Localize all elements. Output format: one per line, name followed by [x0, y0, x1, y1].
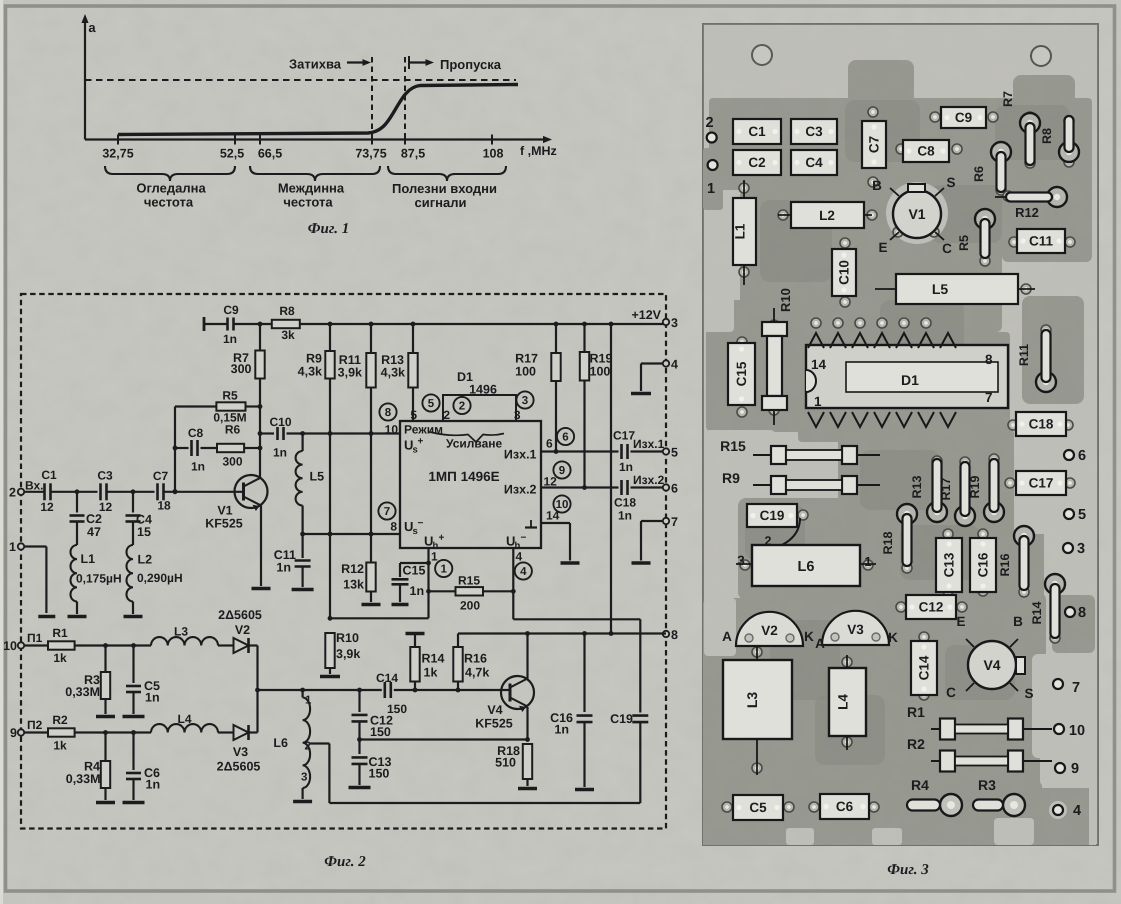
svg-text:7: 7 [671, 515, 678, 529]
svg-text:1n: 1n [191, 460, 205, 474]
pin-number bubble 7 [378, 502, 395, 519]
junction [103, 730, 108, 735]
junction C10 [258, 431, 263, 436]
svg-text:1n: 1n [554, 723, 569, 737]
terminal 6 [663, 484, 669, 490]
svg-text:S: S [1024, 686, 1033, 701]
svg-text:C12: C12 [919, 600, 944, 615]
wire input [24, 491, 45, 493]
copper pour C15-R10 [706, 300, 802, 432]
component C1 [733, 119, 781, 144]
svg-text:150: 150 [369, 767, 390, 781]
junction rail x=556 [554, 322, 559, 327]
svg-text:V3: V3 [233, 745, 248, 759]
junction rail x=611 [609, 322, 614, 327]
resistor R11 [366, 353, 375, 388]
svg-text:C18: C18 [1029, 417, 1054, 432]
svg-text:E: E [878, 240, 887, 255]
wire C10 left [260, 432, 274, 434]
wire C11 bottom [302, 567, 304, 588]
svg-text:8: 8 [390, 520, 397, 534]
wire +12V rail [234, 323, 272, 325]
svg-text:L6: L6 [273, 736, 288, 750]
svg-text:R18: R18 [881, 531, 895, 554]
wire R11-R12 column [370, 388, 372, 563]
junction [357, 688, 362, 693]
svg-text:C3: C3 [97, 469, 113, 483]
svg-text:C7: C7 [867, 136, 882, 153]
terminal 10 (P1) [18, 642, 24, 648]
svg-text:R6: R6 [972, 166, 986, 182]
svg-text:0,33M: 0,33M [66, 772, 101, 786]
svg-text:V1: V1 [217, 504, 232, 518]
copper shading 5 [860, 450, 940, 510]
wire V4 collector [526, 634, 528, 679]
wire C14 to V4 base [394, 689, 510, 691]
junction [300, 532, 305, 537]
IC ground symbol [525, 520, 537, 528]
wire C19 column top [639, 619, 641, 712]
wire R3 bottom [104, 699, 106, 714]
svg-text:R11: R11 [1017, 344, 1031, 366]
svg-text:C16: C16 [976, 552, 991, 577]
copper shading 11 [995, 105, 1070, 160]
wire V1 emitter [260, 506, 262, 587]
component C12 [906, 595, 956, 619]
terminal 5 [663, 448, 669, 454]
copper pour mid band [838, 428, 1014, 532]
svg-text:R5: R5 [222, 389, 238, 403]
diode V2 [736, 612, 803, 646]
svg-text:4,7k: 4,7k [465, 666, 489, 680]
svg-text:R10: R10 [778, 288, 793, 312]
svg-text:150: 150 [370, 725, 391, 739]
svg-text:7: 7 [985, 390, 993, 405]
svg-text:2: 2 [705, 115, 713, 131]
wire R19 bottom [583, 381, 585, 488]
junction [554, 449, 559, 454]
svg-text:1: 1 [9, 540, 16, 554]
wire C2-L1 [76, 522, 78, 546]
component C7 [862, 121, 886, 168]
svg-text:R12: R12 [1015, 205, 1039, 220]
ground terminal4 [631, 392, 651, 396]
wire P2 [24, 731, 48, 733]
svg-text:1k: 1k [53, 651, 67, 665]
junction [131, 489, 136, 494]
svg-text:Фиг. 2: Фиг. 2 [324, 854, 366, 870]
svg-text:1496: 1496 [469, 383, 497, 397]
ground C16 [575, 788, 594, 792]
resistor R8 [272, 320, 300, 328]
svg-text:R17: R17 [515, 352, 538, 366]
svg-text:C10: C10 [269, 415, 291, 429]
svg-text:C: C [946, 685, 956, 700]
wire R10 bottom [329, 668, 331, 674]
wire R11 top [370, 324, 372, 353]
junction [582, 631, 587, 636]
svg-text:C2: C2 [86, 512, 102, 526]
wire to IC pin10 [287, 432, 401, 434]
arrow from pass band [409, 56, 434, 69]
svg-text:4: 4 [671, 358, 678, 372]
svg-text:5: 5 [671, 446, 678, 460]
junction [328, 532, 333, 537]
svg-text:V1: V1 [908, 206, 925, 222]
wire C4-L2 [132, 522, 134, 546]
wire Izh2 row [541, 486, 619, 488]
wire emitter row [360, 738, 528, 740]
capacitor C10 [278, 427, 284, 440]
svg-text:V4: V4 [983, 657, 1000, 673]
diode V3 [822, 611, 889, 645]
svg-text:L2: L2 [819, 208, 835, 223]
svg-text:C10: C10 [837, 260, 852, 285]
wire terminal4 [641, 362, 666, 364]
wire pin14 [541, 522, 570, 524]
solder pads [722, 107, 1075, 812]
wire L6 tap2 drop [328, 744, 330, 804]
wire L2 bottom [132, 602, 134, 615]
svg-text:Изх.2: Изх.2 [504, 483, 537, 497]
svg-text:R19: R19 [968, 475, 982, 498]
svg-text:100: 100 [515, 365, 536, 379]
svg-text:1: 1 [707, 181, 715, 197]
junction [525, 737, 530, 742]
ground C5 [123, 715, 145, 719]
capacitor C16 [577, 716, 593, 723]
ground L2 [124, 615, 143, 619]
capacitor C18 [622, 480, 628, 495]
capacitor C3 [101, 483, 107, 500]
svg-text:R9: R9 [306, 352, 322, 366]
component L3 [723, 646, 792, 775]
pointer squiggle [430, 432, 504, 442]
svg-text:1n: 1n [618, 509, 632, 523]
svg-text:V4: V4 [487, 703, 502, 717]
wire R19 top [583, 324, 585, 352]
svg-text:8: 8 [385, 407, 392, 419]
wire R16 bottom [457, 682, 459, 691]
svg-text:C14: C14 [376, 671, 398, 685]
capacitor C2 [70, 516, 85, 522]
ground pin14 [561, 561, 580, 565]
pad terminal 2 [705, 115, 716, 143]
wire L4 to V3 [218, 731, 234, 733]
ground [320, 675, 340, 679]
wire R9-R10 column [329, 379, 331, 619]
copper pour R1-R2 [900, 695, 1042, 781]
svg-text:2Δ5605: 2Δ5605 [218, 608, 262, 622]
svg-text:2: 2 [443, 408, 450, 422]
component C3 [791, 119, 837, 144]
svg-text:1k: 1k [53, 739, 67, 753]
svg-text:47: 47 [87, 525, 101, 539]
transistor V1 [890, 184, 944, 240]
etched notch bottom 2 [786, 828, 814, 845]
pad terminal 6 [1064, 448, 1086, 464]
svg-text:10: 10 [556, 499, 569, 511]
IC text Uh+ [424, 533, 445, 552]
svg-text:6: 6 [562, 432, 568, 444]
axis tick 235 [234, 135, 236, 145]
svg-text:−: − [521, 533, 527, 544]
terminal 4 [663, 360, 669, 366]
resistor R2 [48, 728, 75, 736]
component L4 [829, 655, 866, 750]
svg-text:9: 9 [10, 726, 17, 740]
graph Y axis with arrow [81, 14, 88, 140]
wire Uh+ bottom link [330, 617, 429, 619]
svg-text:A: A [815, 636, 825, 651]
svg-text:6: 6 [1078, 448, 1086, 464]
inductor L6 [303, 698, 311, 789]
copper pour left column [703, 148, 723, 210]
junction [413, 688, 418, 693]
svg-text:100: 100 [590, 365, 611, 379]
svg-text:7: 7 [1072, 680, 1080, 696]
wire R18 bottom [526, 779, 528, 786]
svg-text:C19: C19 [760, 508, 785, 523]
brace useful input signals [388, 166, 506, 181]
svg-text:S: S [946, 175, 955, 190]
diode V2 [234, 638, 249, 653]
svg-text:1: 1 [431, 550, 438, 564]
svg-text:Изх.1: Изх.1 [633, 437, 665, 451]
copper pour bottom band [703, 758, 1095, 845]
svg-text:C13: C13 [942, 552, 957, 577]
resistor R16 [453, 647, 462, 682]
svg-text:3: 3 [1077, 541, 1085, 557]
wire L5-C11 [302, 506, 304, 559]
copper pour C13-C16 [872, 505, 1044, 602]
junction [131, 730, 136, 735]
ground R3 [96, 715, 115, 719]
junction [173, 446, 178, 451]
ground L1 [68, 615, 87, 619]
trace curve to L6 [772, 518, 800, 549]
junction [103, 643, 108, 648]
wire R15 left [429, 590, 456, 592]
svg-text:1n: 1n [223, 332, 237, 346]
junction [173, 489, 178, 494]
capacitor C13 [352, 757, 368, 764]
pin-number bubble 8 [379, 403, 396, 420]
component R11 [1017, 330, 1056, 392]
svg-text:2Δ5605: 2Δ5605 [217, 760, 261, 774]
component R19 [968, 459, 1004, 522]
svg-text:C8: C8 [188, 426, 204, 440]
pin-number bubble 10 [553, 495, 570, 512]
svg-text:108: 108 [483, 147, 504, 161]
svg-text:E: E [956, 614, 965, 629]
resistor R9 [325, 351, 334, 379]
resistor R15 [456, 587, 484, 595]
svg-text:+: + [439, 533, 445, 544]
junction [173, 489, 178, 494]
capacitor C4 [126, 516, 141, 522]
svg-text:C3: C3 [805, 124, 823, 139]
copper shading 6 [845, 100, 920, 162]
svg-text:R17: R17 [939, 477, 953, 500]
junction rail x=371 [369, 322, 374, 327]
wire R13 to pin5 [412, 388, 414, 422]
svg-text:87,5: 87,5 [401, 147, 425, 161]
wire C15 bottom [399, 584, 401, 602]
svg-text:K: K [888, 630, 898, 645]
svg-text:3: 3 [522, 395, 528, 407]
svg-text:сигнали: сигнали [415, 195, 467, 210]
svg-text:C1: C1 [41, 468, 57, 482]
copper pour V2-L3 [703, 598, 909, 764]
terminal 3 [663, 319, 669, 325]
copper pour top band [709, 98, 1092, 190]
svg-text:4,3k: 4,3k [381, 366, 405, 380]
component L2 [778, 202, 872, 228]
D1 pin chevrons [808, 333, 956, 427]
component R7 [1001, 91, 1040, 165]
svg-text:честота: честота [144, 195, 194, 210]
svg-text:Изх.1: Изх.1 [504, 448, 537, 462]
component R1 [907, 704, 1052, 740]
svg-text:12: 12 [40, 500, 54, 514]
svg-text:+: + [418, 436, 424, 447]
copper mottle texture [703, 24, 1098, 845]
pad terminal 1 [707, 160, 718, 197]
wire R15 right [483, 590, 513, 592]
svg-text:7: 7 [384, 506, 390, 518]
svg-text:2: 2 [9, 486, 16, 500]
ground R4 [96, 801, 115, 805]
svg-text:3,9k: 3,9k [336, 647, 360, 661]
svg-text:Фиг. 3: Фиг. 3 [887, 862, 929, 878]
svg-text:Изх.2: Изх.2 [633, 473, 665, 487]
open terminal bar at C9 [203, 317, 206, 331]
svg-text:C2: C2 [748, 155, 765, 170]
resistor R1 [48, 641, 75, 649]
junction rail x=330 [328, 322, 333, 327]
wire C7 to V1 base [164, 491, 244, 493]
mounting hole left [752, 45, 772, 65]
svg-text:С18: С18 [614, 496, 636, 510]
svg-text:6: 6 [671, 482, 678, 496]
wire L1 bottom [76, 602, 78, 615]
junction [255, 688, 260, 693]
wire diode node to C14 [258, 689, 382, 691]
wire C9 left [204, 323, 228, 325]
ground [362, 603, 381, 607]
copper shading 4 [930, 185, 1002, 243]
capacitor C19 [632, 716, 648, 723]
schematic dashed border [21, 294, 666, 829]
svg-text:73,75: 73,75 [355, 147, 386, 161]
svg-text:R14: R14 [422, 652, 445, 666]
wire C12 top [358, 690, 360, 712]
wire C15 top link [400, 562, 429, 564]
svg-text:3: 3 [671, 316, 678, 330]
component R10 [762, 288, 793, 425]
wire C6 top [132, 733, 134, 771]
component R17 [939, 462, 975, 526]
pad terminal 3 [1063, 541, 1085, 557]
svg-text:R5: R5 [957, 235, 971, 251]
copper pour L6 area [738, 498, 878, 600]
svg-text:L5: L5 [310, 470, 325, 484]
wire L3 to V2 [218, 644, 234, 646]
resistor R7 [255, 351, 264, 379]
svg-text:9: 9 [1071, 761, 1079, 777]
svg-text:C17: C17 [1029, 476, 1054, 491]
junction [357, 737, 362, 742]
copper shading 1 [760, 200, 832, 282]
ground C15 [392, 603, 409, 607]
junction rail x=584.5 [582, 322, 587, 327]
junction [369, 532, 374, 537]
component R14 [1030, 574, 1065, 638]
svg-text:R8: R8 [279, 304, 295, 318]
dashed vertical at 87.5 [404, 57, 406, 140]
svg-text:C11: C11 [1029, 234, 1054, 249]
component C17 [1016, 471, 1066, 495]
svg-text:R14: R14 [1030, 601, 1044, 624]
svg-text:Междинна: Междинна [278, 181, 345, 196]
axis tick 372 [371, 135, 373, 145]
capacitor C6 [126, 773, 141, 779]
pad terminal 9 [1055, 761, 1079, 777]
wire R2 to L4 [75, 731, 151, 733]
svg-text:R12: R12 [341, 562, 364, 576]
svg-text:4: 4 [1073, 803, 1081, 819]
etched island right of V4 [1032, 654, 1096, 758]
svg-text:R19: R19 [590, 352, 613, 366]
component R18 [881, 504, 917, 566]
wire pin4 across [513, 618, 640, 620]
wire V4 emitter [526, 707, 528, 740]
wire C19 column bottom [639, 722, 641, 803]
brace intermediate frequency [250, 166, 380, 181]
wire collector column [259, 379, 261, 478]
etched island C17-C18 [1014, 408, 1096, 534]
brace mirror frequency [105, 166, 235, 181]
ground C6 [123, 801, 145, 805]
resistor R12 [366, 563, 375, 592]
component C11 [1017, 229, 1065, 253]
svg-text:5: 5 [410, 408, 417, 422]
junction [525, 631, 530, 636]
svg-text:KF525: KF525 [205, 517, 243, 531]
component R2 [907, 736, 1052, 772]
wire C5 bottom [132, 692, 134, 714]
wire C12-C13 [358, 722, 360, 755]
etched strip right margin [1089, 788, 1096, 845]
pad terminal 8 [1065, 605, 1086, 621]
svg-text:L3: L3 [744, 692, 760, 709]
component R5 [957, 209, 995, 258]
junction [582, 485, 587, 490]
svg-text:1: 1 [814, 394, 822, 409]
svg-text:R2: R2 [907, 736, 925, 752]
wire R5 left [175, 405, 216, 407]
svg-text:3k: 3k [281, 328, 295, 342]
etched notch bottom 3 [872, 828, 902, 845]
component R12 [995, 187, 1067, 220]
wire node8 row [458, 632, 666, 634]
wire terminal4 drop [640, 364, 642, 392]
wire pin14 drop [569, 523, 571, 561]
svg-text:C4: C4 [805, 155, 823, 170]
svg-text:С17: С17 [613, 429, 635, 443]
copper shading 10 [815, 695, 885, 765]
